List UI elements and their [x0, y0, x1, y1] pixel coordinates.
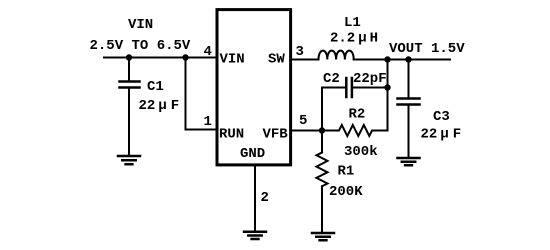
- wire input main: [104, 57, 217, 59]
- node RUN junction: [182, 54, 188, 60]
- svg-text:C3: C3: [433, 109, 450, 125]
- svg-text:22µF: 22µF: [421, 127, 462, 143]
- node VFB junction: [319, 127, 325, 133]
- node C2 row junction: [384, 84, 390, 90]
- wire C3 branch top: [408, 60, 410, 98]
- node VIN junction C1: [126, 54, 132, 60]
- resistor R1: [317, 153, 328, 187]
- svg-text:2.5V TO 6.5V: 2.5V TO 6.5V: [90, 38, 191, 54]
- wire GND pin 2: [254, 166, 256, 231]
- ground C1: [118, 156, 140, 164]
- svg-text:2: 2: [261, 190, 269, 206]
- ground C3: [398, 158, 420, 165]
- svg-text:VIN: VIN: [220, 52, 245, 68]
- wire SW to L1: [292, 59, 319, 61]
- svg-text:300k: 300k: [344, 144, 378, 160]
- wire VFB pin: [292, 130, 322, 132]
- wire C1 branch top: [128, 58, 130, 82]
- capacitor C3: [398, 99, 420, 105]
- wire L1 to output: [354, 59, 450, 61]
- IC U1 regulator: [217, 10, 291, 165]
- svg-text:VFB: VFB: [263, 127, 289, 143]
- resistor R2: [322, 125, 388, 136]
- wire C3 bottom: [408, 105, 410, 157]
- svg-text:5: 5: [299, 113, 307, 129]
- svg-text:R2: R2: [349, 107, 366, 123]
- svg-text:L1: L1: [344, 15, 361, 31]
- ground U1: [244, 232, 266, 239]
- svg-text:RUN: RUN: [219, 127, 244, 143]
- wire RUN branch: [186, 58, 217, 130]
- inductor L1: [319, 51, 354, 60]
- svg-text:R1: R1: [338, 164, 355, 180]
- wire R1 to ground: [321, 186, 323, 232]
- svg-text:VOUT 1.5V: VOUT 1.5V: [389, 41, 465, 57]
- svg-text:C1: C1: [147, 79, 164, 95]
- wire C1 bottom: [128, 88, 130, 155]
- wire C2 row right: [353, 87, 388, 89]
- svg-text:C2: C2: [323, 71, 340, 87]
- svg-text:200K: 200K: [329, 184, 363, 200]
- ground R1: [312, 233, 334, 240]
- svg-text:3: 3: [296, 44, 304, 60]
- wire C2 row left: [322, 87, 346, 89]
- node C3 junction: [405, 56, 411, 62]
- capacitor C1: [120, 82, 140, 88]
- wire left vertical C2 to node: [321, 88, 323, 131]
- svg-text:1: 1: [204, 114, 212, 130]
- svg-text:22pF: 22pF: [353, 71, 387, 87]
- svg-text:GND: GND: [240, 146, 265, 162]
- svg-text:SW: SW: [268, 52, 285, 68]
- node feedback junction: [384, 56, 390, 62]
- svg-text:22µF: 22µF: [139, 98, 180, 114]
- svg-text:VIN: VIN: [128, 17, 153, 33]
- svg-text:2.2µH: 2.2µH: [330, 31, 378, 47]
- svg-text:4: 4: [204, 44, 212, 60]
- capacitor C2: [346, 78, 352, 97]
- wire node to R1: [321, 131, 323, 153]
- wire feedback vertical: [387, 60, 389, 131]
